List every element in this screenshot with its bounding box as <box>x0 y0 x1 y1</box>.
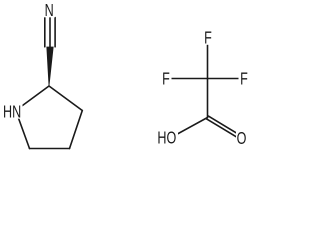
svg-text:N: N <box>45 1 54 21</box>
ring bond C2-C3 <box>49 86 82 111</box>
triple bond C#N (nitrile) <box>44 18 46 47</box>
ring bond N1-C2 <box>16 86 49 111</box>
bond C1-F top <box>207 37 209 79</box>
bond C1-C2 <box>207 79 209 118</box>
label masks <box>2 2 250 146</box>
bond C1-F left <box>166 78 208 80</box>
svg-text:O: O <box>237 129 247 149</box>
bond C2-OH <box>171 118 208 138</box>
svg-text:HO: HO <box>157 129 176 149</box>
svg-text:F: F <box>162 70 170 90</box>
atom labels (condensed) <box>3 1 248 149</box>
ring bond C4-C5 <box>30 148 70 150</box>
wedge bond C2-CN <box>47 47 53 86</box>
svg-text:HN: HN <box>3 102 21 122</box>
ring bond C5-N1 <box>16 111 30 149</box>
svg-text:F: F <box>204 29 212 49</box>
svg-text:F: F <box>240 70 248 90</box>
bond C1-F right <box>208 78 245 80</box>
double bond C2=O <box>208 116 242 137</box>
ring bond C3-C4 <box>70 111 83 149</box>
